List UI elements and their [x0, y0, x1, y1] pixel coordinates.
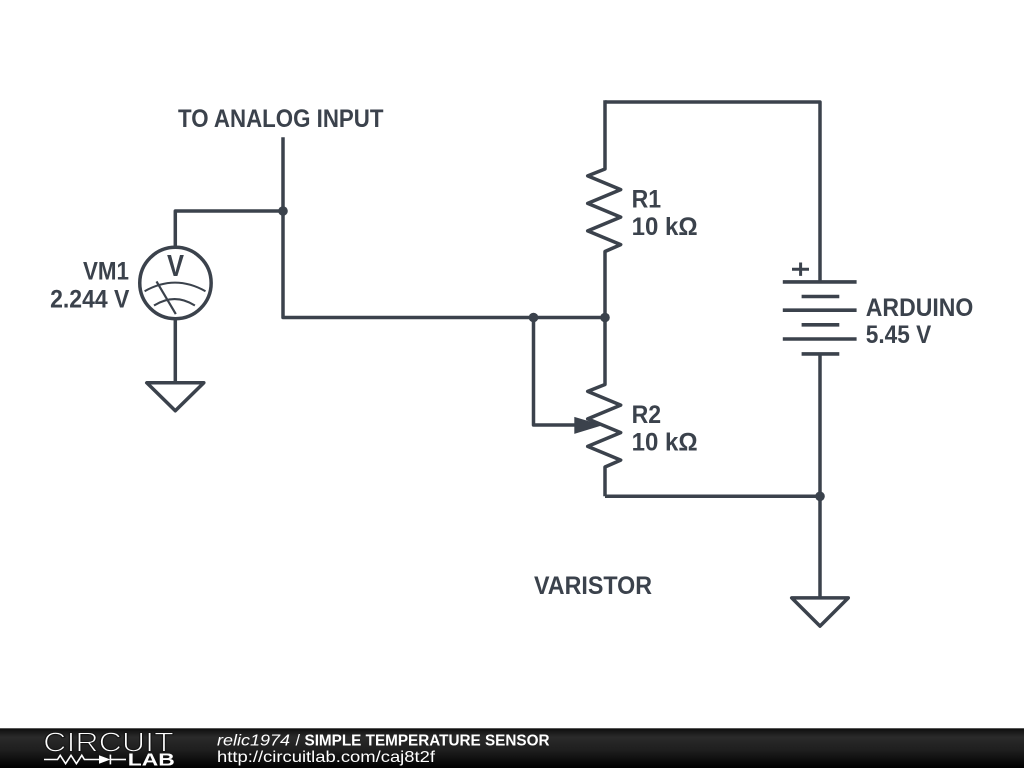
svg-text:VM1: VM1	[83, 258, 129, 286]
svg-text:V: V	[167, 248, 184, 283]
svg-text:VARISTOR: VARISTOR	[534, 572, 652, 600]
svg-text:ARDUINO: ARDUINO	[866, 294, 974, 322]
svg-text:TO ANALOG INPUT: TO ANALOG INPUT	[178, 105, 384, 133]
svg-text:10 kΩ: 10 kΩ	[632, 213, 698, 241]
svg-text:LAB: LAB	[128, 750, 175, 768]
svg-text:R1: R1	[632, 185, 662, 213]
svg-text:relic1974/SIMPLE TEMPERATURE S: relic1974/SIMPLE TEMPERATURE SENSOR	[217, 733, 550, 750]
svg-text:5.45 V: 5.45 V	[866, 321, 932, 349]
svg-text:R2: R2	[632, 401, 662, 429]
svg-text:2.244 V: 2.244 V	[50, 285, 130, 313]
svg-text:10 kΩ: 10 kΩ	[632, 428, 698, 456]
svg-text:http://circuitlab.com/caj8t2f: http://circuitlab.com/caj8t2f	[217, 749, 436, 766]
